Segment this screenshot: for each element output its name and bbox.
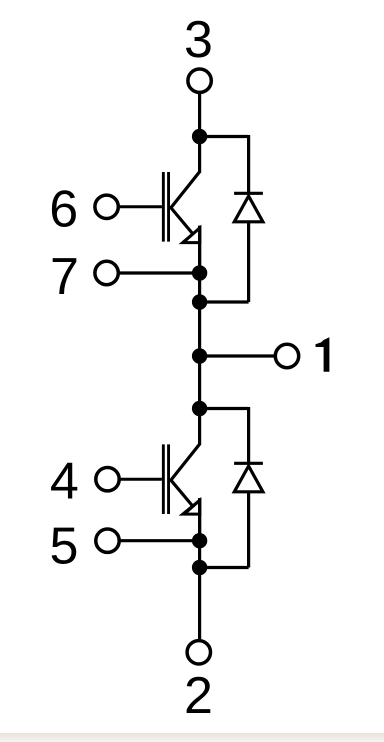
terminal 4	[96, 468, 119, 491]
wire output node to terminal 1	[200, 354, 276, 357]
wire D2 anode to Q2 emitter node	[200, 566, 249, 569]
wire terminal 5 to Q2 emitter node	[119, 539, 200, 542]
Q2 emitter lead diagonal	[170, 479, 192, 506]
svg-text:6: 6	[49, 181, 78, 239]
D1 anode-side vertical wire	[247, 222, 250, 302]
svg-text:3: 3	[184, 11, 213, 69]
junction Q1 emitter node	[192, 265, 207, 280]
Q2 gate bar outer	[162, 444, 165, 514]
svg-text:5: 5	[50, 517, 79, 575]
Q2 emitter vertical wire	[198, 498, 201, 541]
Q1 body bar	[167, 172, 170, 242]
diode D2	[200, 407, 263, 568]
junction output node	[192, 348, 207, 363]
svg-text:7: 7	[50, 248, 79, 306]
wire D1 anode to Q1 emitter node	[200, 300, 249, 303]
D1 cathode bar	[234, 192, 263, 195]
terminal 6	[95, 195, 118, 218]
junction Q2 collector node	[192, 401, 207, 416]
D1 cathode-side vertical wire	[247, 135, 250, 193]
Q1 emitter vertical wire	[198, 226, 201, 273]
wire terminal 6 to Q1 gate	[118, 205, 162, 208]
junction D1 anode node	[192, 294, 207, 309]
terminal 3	[188, 69, 211, 92]
terminal 2	[187, 641, 210, 664]
junction D2 anode node	[192, 560, 207, 575]
D2 anode-side vertical wire	[247, 492, 250, 568]
wire Q2 emitter to terminal 2	[198, 498, 201, 640]
Q1 collector lead diagonal	[170, 171, 200, 208]
transistor Q1 IGBT	[163, 171, 201, 273]
Q1 emitter arrow	[179, 225, 202, 245]
Q2 body bar	[167, 444, 170, 514]
wire terminal 4 to Q2 gate	[119, 478, 162, 481]
wire Q2 collector node to D2 cathode branch	[200, 407, 249, 410]
Q1 emitter lead diagonal	[170, 207, 192, 234]
svg-text:4: 4	[50, 452, 79, 510]
D1 triangle	[234, 196, 263, 222]
diode D1	[200, 135, 263, 302]
wire collector node to D1 cathode branch	[200, 135, 249, 138]
bottom panel edge	[0, 733, 384, 742]
wire terminal 7 to Q1 emitter node	[118, 271, 200, 274]
pin label 1	[316, 337, 330, 372]
terminal 5	[96, 529, 119, 552]
Q1 gate bar outer	[162, 172, 165, 242]
Q2 emitter arrow	[179, 497, 202, 516]
D2 cathode bar	[234, 462, 263, 465]
wire midpoint bus	[198, 226, 201, 445]
transistor Q2 IGBT	[163, 444, 201, 541]
terminal 7	[95, 261, 118, 284]
junction Q2 emitter node	[192, 533, 207, 548]
D2 triangle	[234, 466, 263, 492]
Q2 collector lead diagonal	[170, 444, 200, 481]
wire terminal 3 to Q1 collector	[198, 93, 201, 172]
junction Q1 collector node	[192, 129, 207, 144]
svg-text:2: 2	[184, 667, 213, 725]
D2 cathode-side vertical wire	[247, 407, 250, 463]
terminal 1	[275, 344, 298, 367]
